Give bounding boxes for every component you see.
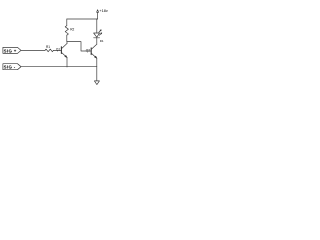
- wire rail to D1 anode: [96, 19, 98, 33]
- wire Q1 collector up: [66, 42, 68, 44]
- svg-text:Q2: Q2: [86, 48, 90, 52]
- transistor Q1: [56, 44, 67, 58]
- resistor R1: [45, 45, 53, 52]
- wire SIG- bottom rail: [21, 66, 97, 68]
- wire R2 top lead: [66, 19, 68, 26]
- svg-text:R1: R1: [46, 45, 50, 49]
- wire R1 to Q1 base: [54, 49, 62, 51]
- wire D1 cathode to Q2 collector: [96, 38, 98, 44]
- svg-text:D1: D1: [100, 39, 104, 43]
- resistor R2: [65, 26, 74, 36]
- svg-text:R2: R2: [70, 28, 74, 32]
- svg-text:SIG -: SIG -: [4, 65, 16, 70]
- svg-text:+18v: +18v: [99, 9, 107, 13]
- wire Q1 emitter down: [66, 58, 68, 68]
- wire Q2 emitter down to ground: [96, 58, 98, 81]
- ground: [94, 81, 99, 85]
- power +18v flag: [97, 9, 108, 19]
- node SIG+ flag: [3, 47, 21, 53]
- node SIG- flag: [3, 64, 21, 70]
- wire SIG+ to R1: [21, 49, 45, 51]
- wire Q1 collector node to Q2 base (jog): [67, 42, 91, 51]
- wire R2 bottom lead: [66, 35, 68, 41]
- LED D1: [94, 30, 104, 43]
- svg-text:Q1: Q1: [56, 48, 60, 52]
- wire top rail: [67, 18, 98, 20]
- svg-text:SIG +: SIG +: [4, 48, 17, 53]
- transistor Q2: [86, 44, 97, 58]
